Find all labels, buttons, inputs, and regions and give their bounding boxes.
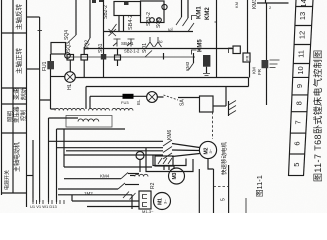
indicator lamp HL: [65, 72, 76, 83]
wire jog top-left: [27, 16, 40, 18]
left column divider y33: [2, 32, 27, 34]
inner frame left: [89, 96, 91, 109]
pilot circles: [150, 18, 155, 23]
motor M1: [154, 193, 171, 210]
nested wrap wire b: [146, 148, 193, 172]
contactor contacts at M1: [123, 192, 136, 200]
contactor KM6 contacts: [163, 140, 172, 159]
motor M2: [199, 141, 216, 158]
control bus vertical x103.5: [103, 0, 105, 78]
wire to HL lamp: [51, 76, 65, 78]
bottom right vertical x213: [213, 172, 215, 213]
bottom right vertical x228.6: [228, 165, 230, 213]
contact on fuse rail: [145, 51, 152, 58]
bus feeder x33: [32, 140, 34, 202]
contact diag near KM: [188, 23, 194, 32]
power bus line 2: [57, 147, 164, 149]
power bus line 3: [64, 154, 163, 156]
control low rail y48.5: [85, 48, 233, 50]
FR feed vertical: [247, 0, 249, 53]
contactor coil KM dark: [203, 55, 210, 67]
contact bracket lower: [192, 50, 197, 55]
limit switch SQ2 lead: [89, 0, 91, 38]
power bus line 1: [49, 140, 164, 142]
pushbutton SB4-1: [113, 39, 121, 47]
rectifier dark box: [262, 60, 269, 68]
column number strip left edge: [289, 0, 297, 176]
motor M3: [169, 168, 185, 184]
contact bracket upper: [192, 16, 197, 21]
bracket mark: [229, 48, 233, 53]
fuse FU2 on x50: [50, 54, 52, 109]
left column divider y133: [2, 132, 27, 134]
power bus line extra: [66, 150, 163, 152]
strip cell dividers: [289, 7, 313, 176]
wrap wire y189 + KM5 contact: [58, 188, 118, 190]
dashed link: [214, 186, 229, 188]
bottom right vertical x199: [198, 169, 200, 213]
nested wrap wire a: [153, 155, 186, 166]
transformer frame left: [85, 87, 87, 110]
left column divider y104: [2, 103, 27, 105]
left column divider y88: [2, 87, 27, 89]
small circle on wire: [136, 152, 144, 160]
relay box B: [141, 1, 165, 23]
secondary tap wire: [49, 117, 79, 119]
speed relay SR humps: [135, 174, 148, 176]
bus feeder x64: [63, 129, 65, 167]
right vertical bus: [266, 3, 268, 105]
tick on bus: [38, 30, 43, 32]
wrap wire y178.7 + KM4 contact: [64, 178, 121, 180]
control mid rail y31.5: [104, 31, 193, 33]
switch SA dashed lever: [164, 95, 179, 100]
wire y106: [213, 105, 226, 107]
fuse drops: [70, 47, 117, 78]
wire jog y69: [27, 68, 40, 70]
tick pair: [163, 53, 165, 60]
long rail y77.5: [75, 77, 248, 79]
transformer primary winding: [55, 108, 84, 110]
winding feed: [40, 100, 56, 109]
fuse rail y57: [67, 56, 195, 58]
fuse box c: [115, 55, 121, 60]
brush block: [155, 156, 173, 166]
terminal ticks: [33, 198, 64, 204]
wrap wire y167: [64, 166, 152, 168]
tiny spec rows: [270, 60, 280, 68]
limit switch SQ4 contact: [68, 35, 76, 43]
vertical feeder x39.6: [39, 17, 41, 202]
left label column mid line: [12, 0, 14, 193]
top right rail: [257, 2, 289, 4]
dark fuse on control bus: [101, 54, 107, 60]
junction circle: [65, 53, 71, 59]
wrap wire y201: [72, 195, 139, 201]
nub on bus: [215, 21, 217, 23]
relay box A: [114, 2, 141, 16]
wire jog y175.5: [27, 175, 34, 177]
fork contacts: [147, 37, 162, 47]
small circle node: [162, 4, 167, 9]
left label column right line: [26, 0, 28, 207]
svg-text:KM: KM: [234, 2, 239, 8]
thermal relay FR: [243, 53, 250, 62]
left label column outer line: [1, 0, 3, 195]
M2 bottom lead: [208, 159, 214, 172]
vertical x226: [225, 87, 227, 107]
inner rail y96.3: [90, 95, 147, 97]
wire to box: [157, 96, 199, 99]
pushbutton SB2-1: [127, 39, 135, 47]
bus feeder x56.5: [56, 129, 58, 202]
control bus vertical x216.5: [216, 0, 218, 78]
bus feeder x48.5: [48, 118, 50, 202]
under wire y129: [57, 128, 126, 130]
lamp EL: [147, 92, 158, 103]
switch drop: [193, 53, 195, 63]
terminal box: [233, 46, 240, 54]
chassis ground hatch: [228, 101, 230, 116]
long rail y86.5: [86, 86, 249, 88]
fuse box a: [67, 55, 74, 61]
limit switch SQ4 lead: [75, 0, 77, 35]
fuse FU3 dark: [123, 94, 134, 99]
wrap wire y206.5: [87, 206, 139, 208]
column number strip right edge: [304, 0, 314, 176]
left column divider y193: [2, 192, 27, 194]
fan wires to M2: [172, 144, 200, 157]
dashed drop to M2: [212, 112, 214, 139]
crossover junction: [109, 24, 117, 36]
rail end vertical: [248, 78, 250, 87]
coil drop wire: [119, 16, 124, 32]
mid box: [200, 96, 214, 112]
faint vertical bottom right: [245, 198, 247, 213]
transformer secondary: [66, 116, 112, 128]
switch box SQ3: [51, 43, 66, 55]
top edge marks: [92, 0, 96, 3]
rotor resistor box: [139, 191, 151, 209]
strip numbers: [292, 0, 308, 167]
upper contacts pair: [182, 0, 189, 18]
fuse box b: [81, 55, 88, 61]
M3 leads: [164, 166, 174, 170]
wrap wire y194.8: [58, 195, 132, 209]
